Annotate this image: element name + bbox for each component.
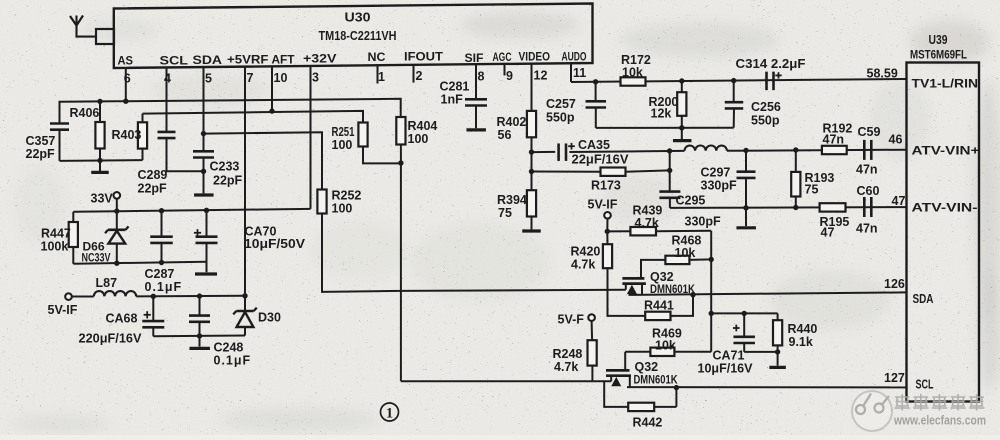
junction dot C287 top xyxy=(159,208,164,213)
svg-text:C233: C233 xyxy=(210,160,240,174)
svg-text:AGC: AGC xyxy=(493,50,512,64)
svg-text:0.1μF: 0.1μF xyxy=(214,354,252,368)
svg-text:3: 3 xyxy=(312,71,319,85)
U30 pin 9 AGC stub xyxy=(504,64,506,76)
svg-text:10k: 10k xyxy=(655,339,676,353)
ground symbol below C248 xyxy=(199,336,201,347)
svg-text:R251: R251 xyxy=(332,125,355,139)
svg-text:R403: R403 xyxy=(112,128,142,142)
transistor Q32 lower DMN601K xyxy=(606,369,630,372)
resistor R195 xyxy=(820,203,846,211)
svg-text:12: 12 xyxy=(534,69,548,83)
svg-text:8: 8 xyxy=(478,70,485,84)
svg-text:330pF: 330pF xyxy=(685,215,721,229)
svg-text:R248: R248 xyxy=(553,347,583,361)
capacitor C297 xyxy=(745,150,747,171)
capacitor C287 xyxy=(161,211,163,237)
capacitor CA68 electrolytic xyxy=(144,314,151,316)
U30 pin 1 NC stub xyxy=(377,65,379,83)
svg-text:R447: R447 xyxy=(41,227,71,241)
junction dot CA71 rail xyxy=(709,311,714,316)
bottom IF rail to ATV-VIN- xyxy=(670,206,907,209)
svg-text:L87: L87 xyxy=(96,276,118,290)
svg-text:4.7k: 4.7k xyxy=(571,258,595,272)
svg-text:TM18-C2211VH: TM18-C2211VH xyxy=(319,29,397,43)
svg-text:10k: 10k xyxy=(622,66,643,80)
svg-text:58.59: 58.59 xyxy=(867,67,898,81)
svg-text:SDA: SDA xyxy=(193,53,223,67)
svg-text:47: 47 xyxy=(821,226,835,240)
junction dot C289/C233 ground join xyxy=(201,169,206,174)
wire R251 bottom to node xyxy=(363,147,401,164)
svg-text:C248: C248 xyxy=(214,341,244,355)
svg-text:U39: U39 xyxy=(929,33,948,47)
capacitor C289 on SCL line xyxy=(158,131,176,134)
junction dot R441/SDA xyxy=(690,292,695,297)
svg-text:126: 126 xyxy=(884,277,905,291)
wire SCL gate branch xyxy=(401,380,611,382)
svg-text:D66: D66 xyxy=(83,240,105,254)
wire SDA gate branch xyxy=(401,290,626,291)
junction dot CA71 top xyxy=(742,311,747,316)
junction dot R193 top xyxy=(793,147,798,152)
resistor R406 xyxy=(99,101,101,122)
svg-text:5V-IF: 5V-IF xyxy=(48,303,78,317)
svg-text:100: 100 xyxy=(332,202,353,216)
resistor R251 xyxy=(358,123,367,147)
resistor R200 xyxy=(681,81,683,92)
svg-text:1: 1 xyxy=(386,406,393,422)
svg-text:R420: R420 xyxy=(571,245,601,259)
junction dot C248 xyxy=(197,293,202,298)
shunt ground rail C257-R200-C256 xyxy=(596,127,734,129)
svg-text:AUDO: AUDO xyxy=(562,50,587,64)
wire R252 to SDA bus corner xyxy=(322,214,401,292)
U30 pin 4 SCL stub xyxy=(166,67,168,132)
junction dot D66 bottom xyxy=(114,261,119,266)
capacitor CA71 electrolytic xyxy=(733,327,740,329)
svg-text:9.1k: 9.1k xyxy=(789,335,813,349)
wire SCL to U39 xyxy=(627,386,907,388)
svg-text:1: 1 xyxy=(378,70,385,84)
junction dot 33V xyxy=(114,208,119,213)
ground symbol under C233 xyxy=(194,193,214,196)
capacitor C281 xyxy=(465,98,487,101)
junction dot CA70 top xyxy=(204,208,209,213)
svg-text:DMN601K: DMN601K xyxy=(634,375,679,387)
junction dot AS pin xyxy=(123,99,128,104)
svg-text:75: 75 xyxy=(498,206,512,220)
capacitor C248 xyxy=(199,296,201,315)
video IC U39 box xyxy=(907,63,980,402)
svg-text:47n: 47n xyxy=(856,222,878,236)
inductor L87 xyxy=(72,296,94,298)
svg-text:R394: R394 xyxy=(497,193,527,207)
svg-text:2: 2 xyxy=(416,69,423,83)
svg-text:ATV-VIN-: ATV-VIN- xyxy=(912,203,978,215)
svg-text:+5VRF: +5VRF xyxy=(227,53,269,67)
svg-text:C257: C257 xyxy=(546,97,576,111)
U30 pin 12 VIDEO stub xyxy=(531,64,533,111)
svg-text:C357: C357 xyxy=(26,134,56,148)
zener diode D30 xyxy=(244,296,246,311)
svg-text:550p: 550p xyxy=(751,114,780,128)
wire AUDO pin to U39 xyxy=(571,79,907,82)
ground symbol below CA70 rail xyxy=(206,262,208,273)
capacitor C59 xyxy=(863,140,866,160)
U30 pin 5 SDA stub xyxy=(203,67,205,152)
watermark logo circle xyxy=(852,391,892,431)
ground under R440 xyxy=(777,352,779,366)
svg-text:12k: 12k xyxy=(651,107,672,121)
junction dot R442/SCL xyxy=(674,385,679,390)
svg-text:VIDEO: VIDEO xyxy=(519,50,551,64)
svg-text:47n: 47n xyxy=(823,133,845,147)
ground bar under C297 xyxy=(736,226,756,229)
svg-text:550p: 550p xyxy=(546,111,575,125)
resistor R248 xyxy=(591,321,594,340)
svg-text:4.7k: 4.7k xyxy=(554,360,578,374)
svg-text:Q32: Q32 xyxy=(635,360,659,374)
capacitor CA70 electrolytic xyxy=(194,232,201,234)
33V rail xyxy=(73,209,310,212)
wire SDA to R252 xyxy=(204,132,323,189)
svg-text:47: 47 xyxy=(892,194,906,208)
svg-text:R402: R402 xyxy=(497,115,527,129)
svg-text:7: 7 xyxy=(247,71,254,85)
terminal 5V-IF pullup xyxy=(604,212,611,219)
svg-text:127: 127 xyxy=(884,371,905,385)
ground rail below CA68 cluster xyxy=(153,335,245,338)
capacitor C314 electrolytic series xyxy=(765,72,768,91)
resistor R172 xyxy=(621,77,646,85)
terminal 5V-F xyxy=(588,314,595,321)
junction dot +5VRF/D30 xyxy=(242,293,247,298)
svg-text:4: 4 xyxy=(164,72,171,86)
svg-text:C297: C297 xyxy=(701,166,731,180)
resistor R173 xyxy=(601,168,626,176)
resistor R193 xyxy=(795,150,797,172)
capacitor C357 xyxy=(50,122,69,125)
U30 pin 3 +32V stub xyxy=(310,66,312,209)
U30 pin 8 SIF stub xyxy=(475,64,477,99)
svg-text:33V: 33V xyxy=(91,192,114,206)
junction dot ground rail xyxy=(97,158,102,163)
svg-text:AS: AS xyxy=(118,54,134,68)
junction dot C297 top xyxy=(743,148,748,153)
svg-text:220μF/16V: 220μF/16V xyxy=(79,332,143,346)
terminal 5V-IF xyxy=(65,293,72,300)
capacitor C256 xyxy=(733,81,735,103)
long wire R404 node down to SCL gate corner xyxy=(400,145,402,382)
ground bar under C281 xyxy=(466,128,486,131)
svg-text:10μF/50V: 10μF/50V xyxy=(244,237,306,251)
svg-text:+32V: +32V xyxy=(303,52,337,66)
svg-text:SCL: SCL xyxy=(160,54,189,68)
terminal 33V xyxy=(114,192,121,199)
svg-text:1nF: 1nF xyxy=(441,93,464,107)
svg-text:R441: R441 xyxy=(644,299,674,313)
svg-text:R404: R404 xyxy=(408,119,438,133)
wire SDA to U39 xyxy=(629,292,907,295)
svg-text:R440: R440 xyxy=(788,322,818,336)
svg-text:NC: NC xyxy=(368,50,386,64)
junction dot 5V-IF node xyxy=(605,229,610,234)
svg-text:SIF: SIF xyxy=(465,51,484,65)
svg-text:CA71: CA71 xyxy=(713,349,745,363)
svg-text:330pF: 330pF xyxy=(701,179,737,193)
svg-text:MST6M69FL: MST6M69FL xyxy=(910,50,967,62)
circled number 1 xyxy=(381,403,399,421)
resistor R447 xyxy=(72,212,74,222)
capacitor C233 on SDA line xyxy=(193,150,214,153)
junction dot R193 bottom xyxy=(793,205,798,210)
U30 pin 11 AUDO stub xyxy=(570,63,572,82)
drain wire lower Q32 to R469 xyxy=(625,351,650,353)
svg-text:5V-IF: 5V-IF xyxy=(588,198,618,212)
junction dot C295 node mid xyxy=(667,168,672,173)
wire R420 bottom through gate to R441 xyxy=(608,268,646,316)
svg-text:R173: R173 xyxy=(591,179,621,193)
resistor R192 xyxy=(822,146,847,154)
resistor R441 xyxy=(645,312,670,320)
svg-text:10k: 10k xyxy=(675,246,696,260)
svg-text:D30: D30 xyxy=(258,311,281,325)
svg-text:R442: R442 xyxy=(633,416,663,430)
U30 pin 10 AFT stub xyxy=(271,66,273,112)
resistor R420 xyxy=(606,231,608,244)
resistor R404 xyxy=(396,117,405,145)
ground under R200 xyxy=(681,128,683,139)
wire CA35 row xyxy=(532,151,556,153)
wire R442 right leg xyxy=(675,388,677,407)
junction dot CA35 branch xyxy=(529,149,534,154)
wire R173 row xyxy=(532,171,601,173)
pullup rail right xyxy=(710,231,712,352)
svg-text:5V-F: 5V-F xyxy=(558,313,585,327)
svg-text:C314 2.2μF: C314 2.2μF xyxy=(736,57,806,71)
svg-text:CA68: CA68 xyxy=(106,312,138,326)
svg-text:C287: C287 xyxy=(145,267,175,281)
junction dot C248 bottom xyxy=(197,333,202,338)
resistor R468 xyxy=(641,260,665,278)
svg-text:IFOUT: IFOUT xyxy=(404,50,444,64)
junction dot R440 bottom xyxy=(775,349,780,354)
junction dot R200 bottom xyxy=(679,125,684,130)
wire CA71 top rail xyxy=(711,312,777,314)
AFT rail (rail B) from R403 to R251 xyxy=(143,111,364,123)
svg-text:100k: 100k xyxy=(41,240,69,254)
svg-text:22μF/16V: 22μF/16V xyxy=(572,153,630,167)
junction dot R200 top xyxy=(679,78,684,83)
ground rail below zener cluster xyxy=(73,262,206,264)
svg-text:SCL: SCL xyxy=(916,378,934,392)
svg-text:56: 56 xyxy=(498,128,512,142)
junction dot C257 xyxy=(593,79,598,84)
svg-text:10: 10 xyxy=(274,71,288,85)
svg-text:22pF: 22pF xyxy=(26,147,56,161)
svg-text:Q32: Q32 xyxy=(650,270,674,284)
wire R173 to C295 node xyxy=(626,170,670,171)
svg-text:6: 6 xyxy=(124,72,131,86)
svg-text:C289: C289 xyxy=(138,168,168,182)
resistor R402 xyxy=(527,111,536,137)
svg-text:0.1μF: 0.1μF xyxy=(145,280,183,294)
svg-text:C60: C60 xyxy=(857,184,880,198)
svg-text:75: 75 xyxy=(805,183,819,197)
svg-text:ATV-VIN+: ATV-VIN+ xyxy=(912,146,980,158)
svg-text:46: 46 xyxy=(889,133,903,147)
resistor R439 xyxy=(607,230,630,232)
resistor R252 xyxy=(317,190,326,214)
ground rail below R406 xyxy=(60,159,143,162)
ground symbol under R406 xyxy=(99,161,101,172)
zener diode D66 xyxy=(116,211,118,229)
junction dot C295 node top xyxy=(667,148,672,153)
svg-text:C295: C295 xyxy=(676,194,706,208)
wire CA35 to C295 node xyxy=(569,151,669,152)
junction dot C287 bottom xyxy=(159,260,164,265)
U30 pin 7 +5VRF stub xyxy=(244,66,246,295)
svg-text:R406: R406 xyxy=(70,106,100,120)
U30 pin 2 IFOUT stub xyxy=(413,65,415,83)
junction dot R251/R404 node xyxy=(398,160,403,165)
svg-text:R252: R252 xyxy=(332,189,362,203)
wire R441 right to SDA wire xyxy=(671,295,694,316)
svg-text:47n: 47n xyxy=(856,163,878,177)
svg-text:100: 100 xyxy=(332,138,353,152)
wire 33V terminal to rail xyxy=(116,199,118,211)
watermark text dianzifashaoyou xyxy=(895,394,985,411)
resistor R394 xyxy=(527,190,536,216)
capacitor C60 xyxy=(863,197,866,217)
junction dot SDA wire to R252 xyxy=(201,131,206,136)
junction dot R406 top xyxy=(97,99,102,104)
resistor R442 xyxy=(628,403,654,411)
svg-text:U30: U30 xyxy=(345,10,371,25)
capacitor C257 xyxy=(595,82,597,101)
ground under R394 xyxy=(531,217,533,230)
svg-text:9: 9 xyxy=(506,69,513,83)
resistor R469 xyxy=(650,348,674,356)
wire CA71 bottom to R440 bottom xyxy=(744,351,777,353)
wire 5V-IF to R439 row xyxy=(606,219,608,232)
junction dot C256 top xyxy=(731,78,736,83)
junction dot CA68 xyxy=(151,294,156,299)
node rail from AS pin to R404 (rail A) xyxy=(60,99,401,124)
junction dot C297 bottom rail xyxy=(743,205,748,210)
resistor R440 xyxy=(777,313,779,320)
junction dot R173 branch xyxy=(529,169,534,174)
svg-text:22pF: 22pF xyxy=(138,182,168,196)
svg-text:AFT: AFT xyxy=(272,53,296,67)
svg-text:C59: C59 xyxy=(858,125,881,139)
junction dot R468 right xyxy=(709,257,714,262)
svg-text:CA35: CA35 xyxy=(578,138,610,152)
svg-text:5: 5 xyxy=(205,72,212,86)
5V-IF rail xyxy=(136,295,245,298)
wire VIDEO node xyxy=(531,137,533,190)
svg-text:22pF: 22pF xyxy=(213,174,243,188)
svg-text:10μF/16V: 10μF/16V xyxy=(698,362,754,376)
svg-text:TV1-L/RIN: TV1-L/RIN xyxy=(912,79,979,91)
svg-text:C256: C256 xyxy=(751,100,781,114)
svg-text:SDA: SDA xyxy=(913,292,934,306)
capacitor C295 xyxy=(669,151,671,192)
capacitor CA35 electrolytic series xyxy=(557,143,560,161)
tuner IC U30 box xyxy=(114,4,593,69)
antenna xyxy=(70,16,83,26)
svg-text:11: 11 xyxy=(573,66,586,80)
svg-text:100: 100 xyxy=(408,132,429,146)
resistor R403 xyxy=(142,114,144,123)
svg-text:www.elecfans.com: www.elecfans.com xyxy=(893,414,986,428)
svg-text:C281: C281 xyxy=(440,80,470,94)
svg-text:4.7k: 4.7k xyxy=(635,216,659,230)
junction dot AFT pin on rail B xyxy=(269,108,274,113)
U30 pin 6 AS stub xyxy=(125,67,127,101)
transistor Q32 upper DMN601K xyxy=(622,277,644,280)
inductor IF coil xyxy=(670,150,685,152)
